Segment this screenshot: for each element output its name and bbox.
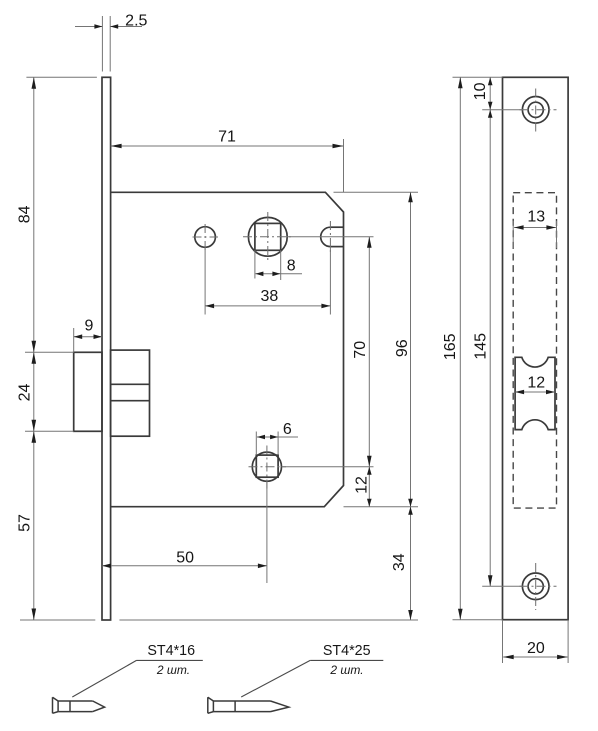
svg-text:57: 57 xyxy=(16,514,33,532)
svg-text:71: 71 xyxy=(218,128,236,145)
svg-text:2.5: 2.5 xyxy=(125,13,147,30)
svg-text:96: 96 xyxy=(394,339,411,357)
svg-text:84: 84 xyxy=(16,205,33,223)
svg-text:8: 8 xyxy=(287,258,296,275)
svg-text:12: 12 xyxy=(353,476,370,494)
svg-text:24: 24 xyxy=(16,384,33,402)
svg-text:6: 6 xyxy=(283,421,292,438)
svg-text:2 шт.: 2 шт. xyxy=(329,663,363,677)
svg-text:34: 34 xyxy=(391,553,408,571)
svg-text:20: 20 xyxy=(527,640,545,657)
svg-text:145: 145 xyxy=(472,333,489,360)
svg-text:13: 13 xyxy=(527,209,545,226)
svg-text:70: 70 xyxy=(352,341,369,359)
svg-text:ST4*16: ST4*16 xyxy=(147,643,195,659)
svg-text:12: 12 xyxy=(527,375,545,392)
svg-text:50: 50 xyxy=(176,549,194,566)
svg-text:2 шт.: 2 шт. xyxy=(156,663,190,677)
svg-text:ST4*25: ST4*25 xyxy=(323,643,371,659)
svg-text:9: 9 xyxy=(85,318,94,335)
svg-text:38: 38 xyxy=(261,288,279,305)
svg-text:165: 165 xyxy=(442,333,459,360)
svg-text:10: 10 xyxy=(472,82,489,100)
